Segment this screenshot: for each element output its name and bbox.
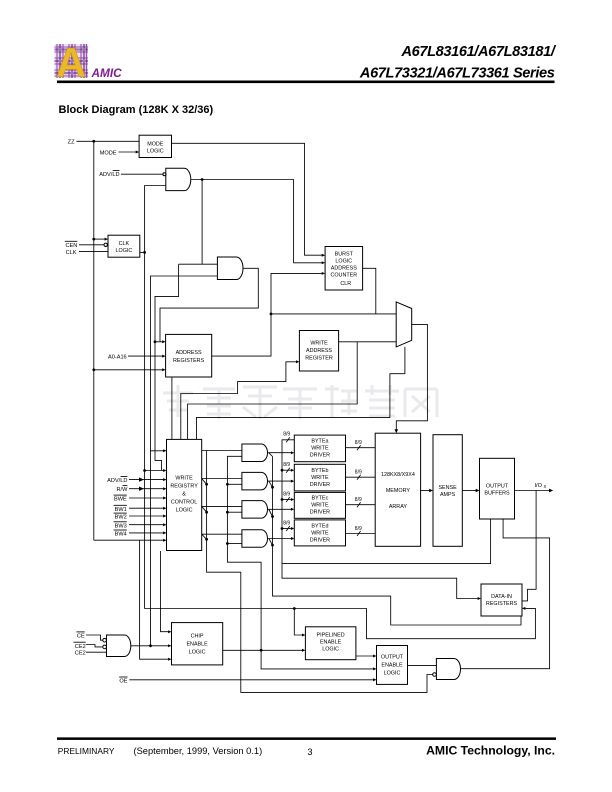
wire WRITE REGISTRY in2 horizontal bbox=[145, 469, 167, 472]
svg-text:ADDRESS: ADDRESS bbox=[306, 348, 332, 354]
svg-text:REGISTERS: REGISTERS bbox=[486, 601, 518, 607]
address MUX trapezoid U6 bbox=[396, 302, 412, 347]
svg-text:SENSE: SENSE bbox=[438, 485, 457, 491]
BYTEc WRITE DRIVER box U10 bbox=[294, 492, 345, 518]
svg-text:PIPELINED: PIPELINED bbox=[317, 633, 345, 639]
svg-text:LOGIC: LOGIC bbox=[116, 248, 133, 254]
wire R/W into WRITE REGISTRY bbox=[129, 487, 167, 491]
wire staircase to ADDRESS REGISTERS in1 / WRITE REGISTRY in2 bbox=[154, 264, 179, 470]
wire CLK net rail (G1.in2 / CLK out / write registry / pipelined / data-in clock) bbox=[143, 186, 535, 639]
wire G5 output to BYTEc bbox=[268, 508, 295, 517]
PIPELINED ENABLE LOGIC box U17 bbox=[305, 627, 356, 660]
wire WRITE ADDRESS REGISTER output to MUX in2 bbox=[339, 341, 397, 343]
wire V4 to CHIP ENABLE in1 bbox=[161, 551, 172, 633]
svg-text:CEN: CEN bbox=[65, 243, 77, 249]
wire branch to PIPELINED in1 bbox=[294, 609, 305, 637]
wire write address feedback bus to WRITE REGISTRY top bbox=[188, 342, 358, 440]
wire BURST output joining address bus bbox=[363, 268, 376, 314]
svg-text:WRITE: WRITE bbox=[311, 503, 329, 509]
svg-text:A67L83161/A67L83181/: A67L83161/A67L83181/ bbox=[400, 44, 556, 60]
svg-text:8/9: 8/9 bbox=[355, 526, 362, 532]
svg-text:8/9: 8/9 bbox=[355, 497, 362, 503]
wire control out3 to G5 in1 bbox=[202, 506, 242, 512]
wire I/O output bbox=[515, 489, 554, 493]
label CE2 bbox=[75, 651, 86, 657]
OUTPUT ENABLE LOGIC box U18 bbox=[377, 646, 408, 685]
svg-text:BW2: BW2 bbox=[115, 515, 127, 521]
wire OUTPUT ENABLE output to G8 in1 bbox=[408, 664, 437, 666]
wire G7 output to CHIP ENABLE in2 bbox=[129, 644, 171, 647]
SENSE AMPS box U13 bbox=[433, 435, 462, 547]
svg-text:CE: CE bbox=[77, 634, 85, 640]
wire CE2 to G7 bubble bbox=[86, 645, 102, 647]
svg-text:DRIVER: DRIVER bbox=[310, 453, 330, 459]
svg-text:ARRAY: ARRAY bbox=[389, 504, 408, 510]
wire CHIP ENABLE output to PIPELINED in2 bbox=[223, 649, 306, 652]
svg-text:A0-A16: A0-A16 bbox=[108, 354, 127, 360]
wire ADDRESS REGISTERS bottom to WRITE REGISTRY top bbox=[171, 377, 173, 439]
wire I/O feedback into DATA-IN REGISTERS bbox=[522, 491, 536, 601]
node ZZ vertical rail bbox=[92, 140, 95, 540]
svg-text:BUFFERS: BUFFERS bbox=[484, 490, 510, 496]
svg-text:Block Diagram (128K X 32/36): Block Diagram (128K X 32/36) bbox=[59, 104, 214, 116]
svg-text:CLR: CLR bbox=[340, 281, 351, 287]
svg-text:BYTEa: BYTEa bbox=[311, 439, 328, 445]
wire BW1 into WRITE REGISTRY bbox=[129, 507, 167, 510]
svg-text:ADV/LD: ADV/LD bbox=[107, 478, 127, 484]
svg-text:BYTEd: BYTEd bbox=[311, 523, 328, 529]
BYTEd WRITE DRIVER box U11 bbox=[294, 520, 345, 546]
wire gate bus down to DATA-IN REGISTERS bottom bbox=[271, 457, 521, 626]
label 8/9 BYTEc out with slash bbox=[355, 497, 362, 507]
wire vertical rail A to G8 bubble bbox=[205, 451, 433, 693]
label 8/9 BYTEc in with slash bbox=[283, 491, 290, 502]
svg-text:8/9: 8/9 bbox=[283, 491, 290, 497]
svg-text:CLK: CLK bbox=[66, 250, 77, 256]
label BWE bbox=[114, 495, 127, 503]
WRITE ADDRESS REGISTER box U5 bbox=[299, 331, 338, 372]
svg-text:COUNTER: COUNTER bbox=[330, 273, 357, 279]
label 8/9 BYTEd out with slash bbox=[355, 526, 362, 536]
label BW4 bbox=[114, 530, 127, 538]
label CLK bbox=[66, 250, 77, 256]
label I/Ox bbox=[535, 483, 547, 489]
wire SENSE AMPS to OUTPUT BUFFERS bbox=[462, 489, 479, 492]
wire address bus into MUX in1 bbox=[271, 313, 396, 315]
svg-text:REGISTERS: REGISTERS bbox=[173, 358, 205, 364]
svg-text:CE2: CE2 bbox=[75, 651, 86, 657]
svg-text:BURST: BURST bbox=[335, 252, 354, 258]
label R/W bbox=[117, 486, 129, 494]
and-gate G7 (chip enable inputs) bbox=[103, 635, 131, 657]
wire ADDRESS REGISTERS output to BURST in3 and mux bus bbox=[212, 272, 325, 356]
svg-text:8/9: 8/9 bbox=[355, 440, 362, 446]
svg-text:128KX8/X9X4: 128KX8/X9X4 bbox=[381, 472, 415, 478]
wire BYTEd to MEMORY bbox=[346, 533, 376, 535]
label ADV/LD bbox=[99, 171, 119, 179]
wire G4 output to BYTEb bbox=[268, 480, 295, 488]
svg-text:BW4: BW4 bbox=[115, 532, 127, 538]
svg-text:X: X bbox=[544, 484, 547, 489]
svg-text:ENABLE: ENABLE bbox=[320, 640, 342, 646]
wire CEN to CLK LOGIC bubble bbox=[79, 243, 107, 246]
svg-text:ADV/LD: ADV/LD bbox=[99, 172, 119, 178]
wire ZZ rail bottom into WRITE REGISTRY in10 bbox=[94, 539, 167, 542]
svg-text:CHIP: CHIP bbox=[191, 634, 204, 640]
wire CLK to CLK LOGIC in3 bbox=[79, 250, 108, 252]
svg-text:LOGIC: LOGIC bbox=[189, 650, 206, 656]
wire BW2 into WRITE REGISTRY bbox=[129, 515, 167, 518]
WATERMARK bbox=[163, 385, 437, 419]
wire G2 output loop to ADDRESS REGISTERS in1 bbox=[155, 268, 258, 343]
label 8/9 BYTEb out with slash bbox=[355, 470, 362, 480]
svg-text:AMIC Technology, Inc.: AMIC Technology, Inc. bbox=[426, 744, 555, 758]
svg-text:ADDRESS: ADDRESS bbox=[331, 266, 357, 272]
label CE bbox=[76, 632, 85, 640]
wire V3 rail to CHIP ENABLE in2 line bbox=[149, 451, 152, 647]
label 8/9 BYTEd in with slash bbox=[283, 520, 290, 531]
svg-text:ENABLE: ENABLE bbox=[381, 662, 403, 668]
wire A0-A16 into ADDRESS REGISTERS in2 bbox=[128, 355, 166, 358]
and-gate G2 bbox=[217, 257, 243, 280]
wire 8/9 data bus rail bbox=[281, 440, 481, 600]
svg-text:I/O: I/O bbox=[535, 483, 543, 489]
wire CLK out stub bbox=[140, 251, 145, 253]
BURST LOGIC ADDRESS COUNTER CLR box U3 bbox=[325, 247, 363, 291]
CHIP ENABLE LOGIC box U16 bbox=[172, 623, 223, 665]
svg-text:LOGIC: LOGIC bbox=[384, 670, 401, 676]
label A0-A16 bbox=[108, 354, 127, 360]
wire data stub to BYTEb bbox=[282, 469, 294, 472]
and-gate G5 (BYTEc write) bbox=[242, 501, 268, 518]
svg-text:REGISTER: REGISTER bbox=[305, 355, 333, 361]
wire V1 branch to CHIP ENABLE in3 bbox=[140, 540, 172, 661]
wire CE2 to G7 in3 bbox=[86, 651, 107, 653]
svg-text:REGISTRY: REGISTRY bbox=[170, 484, 198, 490]
label OE bbox=[119, 677, 128, 685]
svg-text:BYTEc: BYTEc bbox=[312, 496, 329, 502]
svg-text:AMIC: AMIC bbox=[91, 66, 123, 80]
OUTPUT BUFFERS box U14 bbox=[480, 458, 515, 519]
WRITE REGISTRY & CONTROL LOGIC box U7 bbox=[167, 439, 202, 550]
svg-text:WRITE: WRITE bbox=[311, 446, 329, 452]
wire ADV/LD to G1 bubble bbox=[121, 173, 163, 175]
BYTEa WRITE DRIVER box U8 bbox=[294, 435, 345, 462]
svg-text:LOGIC: LOGIC bbox=[322, 647, 339, 653]
BYTEb WRITE DRIVER box U9 bbox=[294, 464, 345, 491]
wire G3 output to BYTEa bbox=[268, 451, 295, 456]
wire G6 output to BYTEd bbox=[268, 537, 295, 545]
svg-text:8/9: 8/9 bbox=[283, 520, 290, 526]
svg-text:A: A bbox=[56, 39, 86, 86]
wire rail B stub to G4 in2 bbox=[227, 483, 242, 485]
label CEN bbox=[65, 241, 78, 249]
svg-text:8/9: 8/9 bbox=[283, 462, 290, 468]
CLK LOGIC box U2 bbox=[108, 235, 140, 257]
label 8/9 BYTEb in with slash bbox=[283, 462, 290, 473]
wire BYTEa to MEMORY bbox=[346, 447, 376, 449]
svg-text:R/W: R/W bbox=[117, 487, 129, 493]
svg-text:8/9: 8/9 bbox=[355, 470, 362, 476]
wire BYTEb to MEMORY bbox=[346, 476, 376, 478]
wire rail B stub to G6 in2 bbox=[227, 543, 242, 545]
svg-text:CLK: CLK bbox=[119, 241, 130, 247]
128KX8/X9X4 MEMORY ARRAY box U12 bbox=[375, 433, 420, 546]
DATA-IN REGISTERS box U15 bbox=[481, 584, 522, 616]
wire data stub to BYTEc bbox=[282, 498, 294, 501]
AMIC logo plaid square bbox=[55, 39, 89, 86]
svg-text:BYTEb: BYTEb bbox=[311, 468, 328, 474]
and-gate G3 (BYTEa write) bbox=[242, 444, 268, 462]
wire OUTPUT BUFFERS enable loop from G8 bbox=[461, 519, 550, 669]
GATES bbox=[103, 168, 461, 679]
svg-text:LOGIC: LOGIC bbox=[147, 148, 164, 154]
label 8/9 BYTEa out with slash bbox=[355, 440, 362, 450]
wire control out2 to G4 in1 bbox=[202, 479, 242, 485]
wire data bus branch to OUTPUT BUFFERS bottom bbox=[282, 519, 491, 564]
svg-text:MODE: MODE bbox=[100, 150, 117, 156]
svg-text:A67L73321/A67L73361 Series: A67L73321/A67L73361 Series bbox=[359, 66, 555, 82]
and-gate G1 (ADV/LD clk) bbox=[163, 168, 191, 190]
wire BYTEc to MEMORY bbox=[346, 504, 376, 506]
wire rail B stub to G5 in2 bbox=[227, 511, 242, 513]
header rule bbox=[57, 81, 555, 84]
svg-text:(September, 1999, Version 0.1): (September, 1999, Version 0.1) bbox=[134, 746, 263, 756]
wire ZZ rail to ADDRESS REGISTERS in3 bbox=[94, 368, 166, 371]
svg-text:DATA-IN: DATA-IN bbox=[491, 594, 512, 600]
wire MODE LOGIC output to BURST counter in1 bbox=[172, 143, 326, 256]
label BW2 bbox=[114, 513, 127, 521]
wire G1 output branch down to G2 in1 bbox=[201, 180, 203, 265]
svg-text:LOGIC: LOGIC bbox=[176, 508, 193, 514]
svg-text:ENABLE: ENABLE bbox=[186, 642, 208, 648]
svg-text:AMPS: AMPS bbox=[440, 492, 456, 498]
ADDRESS REGISTERS box U4 bbox=[166, 334, 212, 377]
wire ADV/LD into WRITE REGISTRY bbox=[129, 477, 167, 481]
svg-text:MODE: MODE bbox=[147, 141, 164, 147]
HEADER bbox=[55, 39, 557, 116]
svg-text:PRELIMINARY: PRELIMINARY bbox=[58, 746, 115, 756]
wire OE to OUTPUT ENABLE in3 bbox=[129, 678, 376, 681]
svg-text:CONTROL: CONTROL bbox=[171, 500, 197, 506]
svg-text:BW3: BW3 bbox=[115, 523, 127, 529]
MODE LOGIC box U1 bbox=[139, 135, 171, 157]
label ZZ bbox=[68, 140, 75, 146]
svg-text:ZZ: ZZ bbox=[68, 140, 75, 146]
wire control jog to WRITE ADDRESS REGISTER in2 bbox=[181, 360, 300, 439]
label ADV/LD write bbox=[107, 477, 127, 485]
wire control out4 to G6 in1 bbox=[202, 534, 242, 539]
svg-text:WRITE: WRITE bbox=[311, 475, 329, 481]
wire mux lower bus to WRITE REGISTRY top bbox=[197, 347, 405, 440]
wire MEMORY to SENSE AMPS bbox=[421, 489, 433, 492]
label MODE bbox=[100, 150, 117, 156]
wire vertical rail B to OUTPUT ENABLE in2 bbox=[226, 456, 377, 670]
svg-text:DRIVER: DRIVER bbox=[310, 510, 330, 516]
and-gate G4 (BYTEb write) bbox=[242, 472, 268, 490]
svg-text:OUTPUT: OUTPUT bbox=[486, 483, 509, 489]
wire G2 in2 rail to WRITE REGISTRY in1 bbox=[151, 276, 218, 452]
wire PIPELINED output to OUTPUT ENABLE in1 bbox=[356, 655, 377, 658]
label CE2 inverted bbox=[73, 642, 85, 650]
label BW3 bbox=[114, 522, 127, 530]
svg-text:8/9: 8/9 bbox=[283, 432, 290, 438]
and-gate G8 (output enable) bbox=[433, 659, 461, 680]
svg-text:OE: OE bbox=[119, 679, 127, 685]
and-gate G6 (BYTEd write) bbox=[242, 530, 268, 548]
DIAGRAM BOXES bbox=[108, 135, 522, 684]
svg-text:BW1: BW1 bbox=[115, 507, 127, 513]
wire control out1 to G3 in1 bbox=[202, 450, 242, 452]
svg-text:3: 3 bbox=[308, 747, 313, 757]
svg-text:LOGIC: LOGIC bbox=[335, 259, 352, 265]
label BW1 bbox=[114, 505, 127, 513]
FOOTER bbox=[57, 737, 556, 757]
wire BW3 into WRITE REGISTRY bbox=[129, 523, 167, 526]
svg-text:BWE: BWE bbox=[114, 497, 127, 503]
svg-text:WRITE: WRITE bbox=[310, 340, 328, 346]
svg-text:OUTPUT: OUTPUT bbox=[381, 654, 404, 660]
svg-text:ADDRESS: ADDRESS bbox=[176, 350, 202, 356]
wire G1 output to BURST in2 bbox=[191, 178, 325, 264]
wire G2 in1 horizontal bbox=[179, 263, 218, 265]
svg-text:MEMORY: MEMORY bbox=[386, 488, 411, 494]
wire CE to G7 bubble bbox=[86, 635, 102, 640]
wire MUX output to MEMORY ARRAY bbox=[395, 324, 428, 433]
wire BW4 into WRITE REGISTRY bbox=[129, 531, 167, 534]
footer rule bbox=[57, 737, 556, 740]
svg-text:CE2: CE2 bbox=[75, 644, 86, 650]
label 8/9 BYTEa in with slash bbox=[283, 432, 290, 443]
svg-text:&: & bbox=[182, 492, 186, 498]
svg-text:WRITE: WRITE bbox=[311, 530, 329, 536]
wire ZZ input to MODE LOGIC bbox=[77, 141, 140, 153]
wire BWE into WRITE REGISTRY bbox=[129, 497, 167, 500]
DIAGRAM WIRES bbox=[77, 140, 554, 693]
wire data stub to BYTEd bbox=[282, 527, 294, 530]
svg-text:DRIVER: DRIVER bbox=[310, 537, 330, 543]
wire ZZ rail to CLK LOGIC in1 bbox=[94, 238, 108, 241]
svg-text:WRITE: WRITE bbox=[175, 476, 193, 482]
svg-text:DRIVER: DRIVER bbox=[310, 482, 330, 488]
